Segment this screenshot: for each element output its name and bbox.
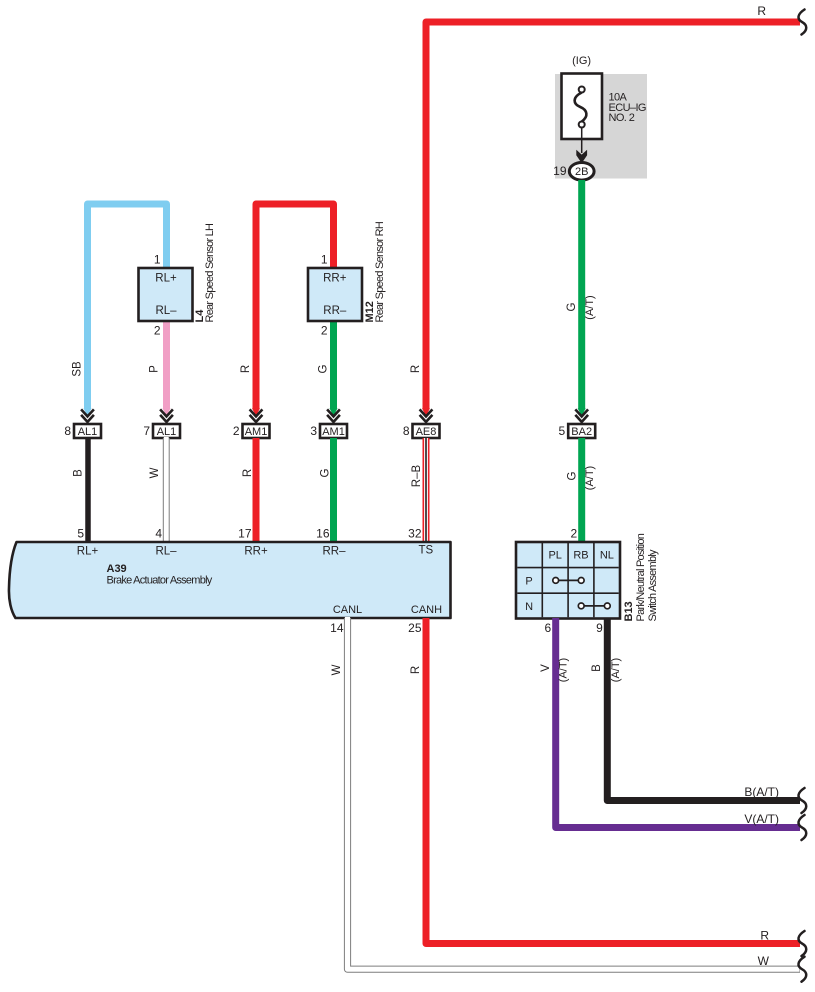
connector BA2 pin5	[559, 409, 596, 438]
svg-text:7: 7	[143, 424, 150, 438]
svg-text:14: 14	[330, 621, 344, 635]
svg-text:V: V	[540, 664, 552, 672]
svg-text:P: P	[149, 365, 161, 373]
break symbol B(A/T)	[798, 788, 806, 813]
svg-text:B: B	[73, 469, 85, 477]
wire tip pink	[163, 408, 171, 416]
svg-text:17: 17	[238, 527, 252, 541]
svg-text:RR+: RR+	[244, 546, 268, 558]
svg-text:R: R	[760, 929, 769, 943]
svg-text:PL: PL	[548, 550, 561, 562]
break symbol R bottom	[798, 931, 806, 956]
break symbol V(A/T)	[798, 815, 806, 840]
wire tip green	[330, 408, 338, 416]
svg-text:B(A/T): B(A/T)	[744, 785, 779, 799]
wire tip red at AM1 arrow	[252, 408, 260, 416]
svg-text:2: 2	[154, 324, 161, 338]
fuse box 10A ECU-IG NO.2	[562, 74, 603, 140]
svg-text:16: 16	[316, 527, 330, 541]
svg-text:W: W	[331, 664, 343, 675]
svg-text:32: 32	[408, 527, 422, 541]
svg-text:RR–: RR–	[322, 546, 346, 558]
svg-text:8: 8	[403, 424, 410, 438]
wire: green G (A/T) from 2B to BA2	[578, 180, 585, 410]
svg-text:G: G	[566, 302, 578, 311]
svg-text:RR–: RR–	[323, 305, 347, 317]
wire: green G (A/T) from BA2 to B13 pin2	[578, 438, 585, 542]
svg-text:AM1: AM1	[322, 426, 345, 438]
svg-text:4: 4	[155, 527, 162, 541]
wire: pink P from L4 pin2	[163, 321, 170, 410]
svg-text:R: R	[240, 365, 252, 373]
svg-text:BA2: BA2	[571, 426, 592, 438]
svg-text:R: R	[242, 469, 254, 477]
svg-text:P: P	[525, 575, 532, 587]
svg-text:25: 25	[408, 621, 422, 635]
wire: green G from M12 pin2	[330, 321, 337, 410]
svg-text:19: 19	[553, 164, 567, 178]
wire thin from fuse to connector 2B	[581, 128, 583, 154]
wire: green G from AM1-3 to A39 pin16	[330, 438, 337, 542]
svg-text:6: 6	[545, 621, 552, 635]
svg-text:3: 3	[310, 424, 317, 438]
svg-text:TS: TS	[418, 545, 433, 557]
svg-text:9: 9	[596, 621, 603, 635]
svg-text:AL1: AL1	[78, 426, 98, 438]
brake actuator A39 box	[9, 542, 451, 618]
svg-text:NO. 2: NO. 2	[609, 112, 635, 124]
svg-text:RL+: RL+	[155, 273, 177, 285]
svg-text:(A/T): (A/T)	[610, 658, 622, 682]
svg-text:AE8: AE8	[416, 426, 437, 438]
svg-text:B13: B13	[623, 601, 635, 621]
svg-text:V(A/T): V(A/T)	[744, 812, 779, 826]
wire tip SB at AL1 arrow	[84, 408, 92, 416]
svg-text:CANH: CANH	[411, 604, 442, 616]
connector AM1 pin3	[310, 409, 347, 438]
svg-text:Rear Speed Sensor LH: Rear Speed Sensor LH	[204, 223, 216, 323]
svg-text:(A/T): (A/T)	[584, 466, 596, 490]
wire: black B from AL1-8 to A39 pin5	[85, 438, 91, 542]
svg-text:W: W	[758, 954, 770, 968]
svg-text:CANL: CANL	[333, 604, 362, 616]
svg-text:RR+: RR+	[323, 273, 347, 285]
svg-text:8: 8	[64, 424, 71, 438]
wire: red loop from rear speed sensor RH pin1	[256, 204, 334, 410]
contact N row	[581, 605, 607, 607]
svg-text:2B: 2B	[575, 166, 588, 178]
park/neutral switch B13 table	[516, 542, 620, 619]
svg-text:(A/T): (A/T)	[558, 658, 570, 682]
speed sensor L4 box	[139, 268, 193, 321]
svg-text:N: N	[525, 601, 533, 613]
connector AE8 pin8	[403, 409, 440, 438]
connector AL1 pin8	[64, 409, 101, 438]
connector AL1 pin7	[143, 409, 180, 438]
wire: red R from AM1-2 to A39 pin17	[253, 438, 260, 542]
contact P row	[556, 579, 582, 581]
svg-text:1: 1	[321, 253, 328, 267]
wire tip green at BA2 arrow	[578, 408, 586, 416]
svg-text:B: B	[591, 664, 603, 672]
svg-text:R: R	[410, 365, 422, 373]
break symbol top right	[798, 10, 806, 35]
svg-text:Brake Actuator Assembly: Brake Actuator Assembly	[107, 575, 213, 587]
connector 2B oval	[569, 163, 594, 181]
svg-text:R–B: R–B	[411, 464, 423, 487]
svg-text:RL–: RL–	[155, 546, 177, 558]
svg-text:G: G	[318, 364, 330, 373]
svg-text:2: 2	[571, 527, 578, 541]
svg-text:NL: NL	[600, 550, 614, 562]
svg-text:G: G	[320, 468, 332, 477]
wire: purple V (A/T) from B13 pin6	[556, 618, 800, 828]
B13 grid lines	[517, 543, 618, 617]
svg-text:RB: RB	[573, 550, 588, 562]
fuse block gray background	[555, 74, 647, 179]
svg-text:5: 5	[559, 424, 566, 438]
wire: white W from CANL pin14 to bottom right	[348, 618, 801, 969]
svg-text:Park/Neutral Position: Park/Neutral Position	[635, 533, 647, 621]
break symbol W bottom	[798, 957, 806, 982]
connector AM1 pin2	[233, 409, 270, 438]
wire: SB loop from rear speed sensor LH pin1	[88, 204, 167, 410]
svg-text:Rear Speed Sensor RH: Rear Speed Sensor RH	[374, 221, 386, 322]
svg-text:RL+: RL+	[77, 546, 99, 558]
svg-text:(A/T): (A/T)	[584, 295, 596, 319]
svg-text:A39: A39	[107, 563, 127, 575]
svg-text:1: 1	[154, 253, 161, 267]
fuse element	[575, 93, 587, 122]
svg-text:R: R	[757, 4, 766, 18]
wire: main red feed from top-right, horizontal then down to AE8	[426, 22, 800, 410]
wire: red R from CANH pin25 to bottom right	[426, 618, 800, 944]
svg-text:R: R	[410, 666, 422, 674]
svg-text:W: W	[149, 467, 161, 478]
arrow into 2B	[576, 150, 587, 163]
svg-text:2: 2	[233, 424, 240, 438]
wire: red-black R-B from AE8 to A39 pin32	[423, 438, 430, 542]
speed sensor M12 box	[308, 268, 362, 321]
svg-text:SB: SB	[72, 361, 84, 377]
svg-text:2: 2	[321, 324, 328, 338]
svg-text:Switch Assembly: Switch Assembly	[647, 549, 659, 622]
svg-text:G: G	[566, 471, 578, 480]
svg-text:RL–: RL–	[155, 305, 177, 317]
svg-text:5: 5	[77, 527, 84, 541]
svg-text:(IG): (IG)	[572, 55, 591, 67]
wire: black B (A/T) from B13 pin9	[607, 618, 800, 801]
svg-text:AL1: AL1	[157, 426, 177, 438]
wire: white W from AL1-7 to A39 pin4	[163, 438, 170, 542]
svg-text:AM1: AM1	[245, 426, 268, 438]
wire tip red at AE8 arrow	[422, 408, 430, 416]
